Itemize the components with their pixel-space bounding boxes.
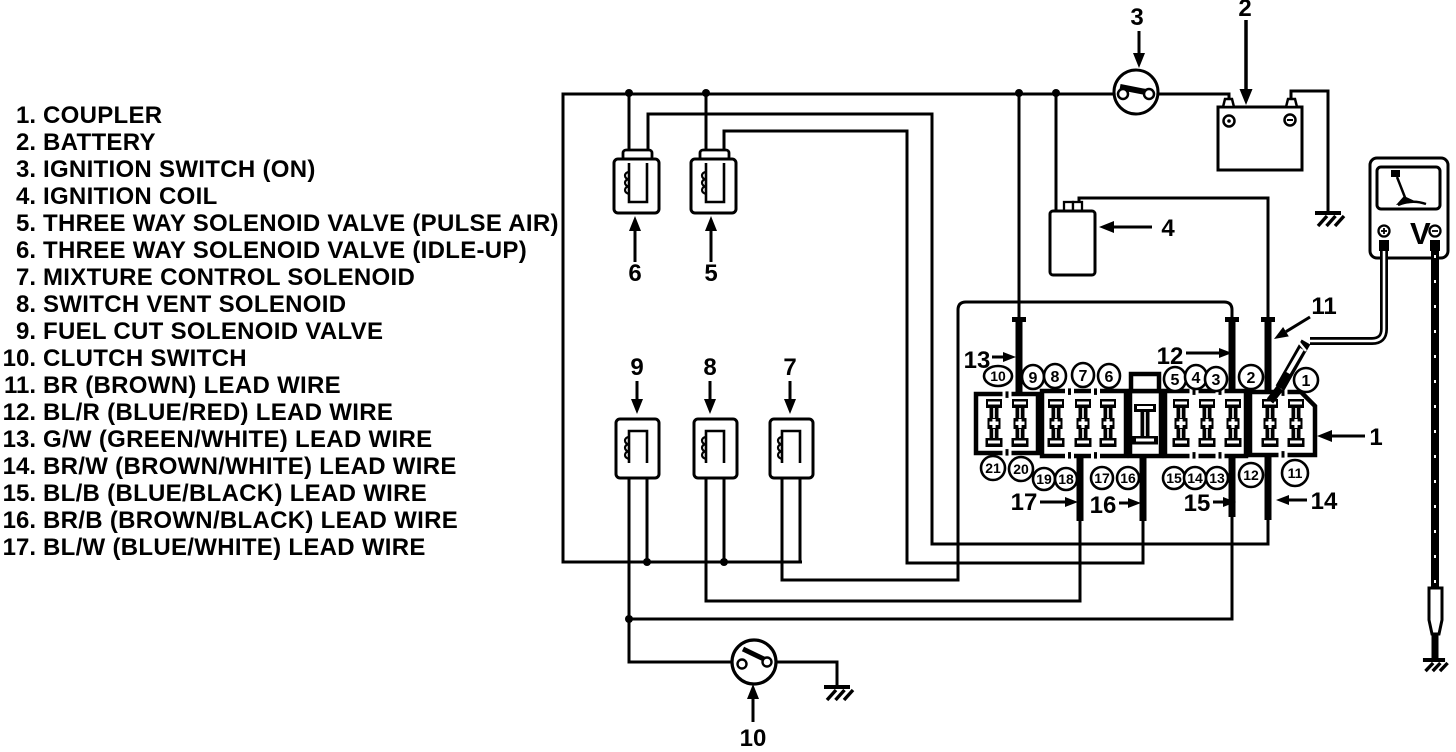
wire main bus rectangle (563, 94, 1114, 562)
svg-text:11: 11 (1311, 293, 1336, 320)
node junction comp9-coupler15 (625, 615, 633, 623)
node junction comp5 feed (702, 89, 710, 97)
svg-text:4.: 4. (16, 183, 36, 210)
mixture control solenoid 7 (770, 419, 813, 478)
svg-text:THREE WAY SOLENOID VALVE (PULS: THREE WAY SOLENOID VALVE (PULSE AIR) (43, 210, 559, 237)
coupler pins (986, 399, 1002, 408)
svg-text:1: 1 (1369, 424, 1382, 451)
svg-text:12: 12 (1243, 467, 1259, 483)
ground clutch switch (824, 685, 850, 689)
svg-text:8: 8 (1051, 369, 1060, 386)
svg-text:9.: 9. (16, 318, 36, 345)
svg-text:21: 21 (985, 460, 1001, 476)
label 3 arrow (1138, 31, 1141, 53)
three way solenoid valve 6 (623, 150, 652, 160)
svg-text:15: 15 (1184, 490, 1211, 517)
label 12 arrow (1186, 352, 1219, 355)
svg-text:10: 10 (990, 368, 1006, 384)
wire coupler 15 to comp9 (629, 517, 1232, 619)
svg-text:19: 19 (1036, 471, 1052, 487)
coupler pin circle 15 (1163, 467, 1185, 489)
coupler center pin (1134, 404, 1156, 412)
coupler pin circle 2 (1239, 365, 1263, 389)
label 16 arrow (1119, 502, 1128, 505)
wire clutch switch to ground (775, 662, 837, 686)
svg-text:1.: 1. (16, 102, 36, 129)
coupler pin circle 13 (1206, 467, 1228, 489)
label 10 arrow (752, 699, 755, 722)
wire comp7 to coupler 12 loop (782, 302, 1232, 580)
svg-text:15.: 15. (3, 480, 36, 507)
svg-text:4: 4 (1161, 215, 1175, 242)
label 4 arrow (1114, 226, 1152, 229)
svg-text:IGNITION SWITCH (ON): IGNITION SWITCH (ON) (43, 156, 316, 183)
wire switch to battery (1158, 94, 1229, 102)
svg-text:3.: 3. (16, 156, 36, 183)
svg-text:5: 5 (1171, 372, 1180, 389)
coupler pin circle 17 (1091, 467, 1113, 489)
svg-text:3: 3 (1130, 4, 1143, 31)
svg-text:14: 14 (1311, 488, 1338, 515)
voltmeter lead wire left (1310, 251, 1384, 341)
wire comp9 right to bus (646, 460, 649, 562)
coupler housing pin divider notches (1003, 391, 1012, 396)
svg-text:14: 14 (1187, 470, 1203, 486)
three way solenoid valve 5 (700, 150, 729, 160)
svg-text:BL/W (BLUE/WHITE) LEAD WIRE: BL/W (BLUE/WHITE) LEAD WIRE (43, 534, 426, 561)
svg-text:12: 12 (1157, 343, 1184, 370)
ground voltmeter probe (1423, 658, 1445, 662)
svg-text:20: 20 (1013, 461, 1029, 477)
svg-text:2: 2 (1247, 370, 1256, 387)
lead wire 13 thick (G/W) (1016, 321, 1023, 401)
svg-text:SWITCH VENT SOLENOID: SWITCH VENT SOLENOID (43, 291, 346, 318)
svg-text:7: 7 (783, 354, 796, 381)
fuel cut solenoid valve 9 (616, 419, 659, 478)
svg-text:16: 16 (1090, 492, 1117, 519)
voltmeter V (1370, 158, 1448, 258)
lead wire 11-2 thick (1265, 321, 1272, 403)
label 6 arrow (634, 231, 637, 262)
svg-text:BR (BROWN) LEAD WIRE: BR (BROWN) LEAD WIRE (43, 372, 341, 399)
svg-text:THREE WAY SOLENOID VALVE (IDLE: THREE WAY SOLENOID VALVE (IDLE-UP) (43, 237, 527, 264)
svg-text:4: 4 (1192, 370, 1201, 387)
node comp8 bus (720, 558, 728, 566)
svg-text:17: 17 (1094, 470, 1110, 486)
wire comp6 to coupler 14 (648, 114, 1268, 544)
label 7 arrow (789, 381, 792, 399)
label 17 arrow (1040, 501, 1065, 504)
voltmeter probe tip (1432, 634, 1439, 658)
svg-text:6: 6 (628, 260, 641, 287)
node junction GW lead feed (1015, 89, 1023, 97)
wire 13 G/W vertical (1018, 94, 1021, 318)
svg-text:10.: 10. (3, 345, 36, 372)
node comp9 bus (643, 558, 651, 566)
lead wire 15 thick (BL/B) (1229, 450, 1236, 517)
svg-text:IGNITION COIL: IGNITION COIL (43, 183, 218, 210)
coupler pin circle 16 (1117, 467, 1139, 489)
svg-text:16.: 16. (3, 507, 36, 534)
coupler pin circle 1 (1294, 368, 1318, 392)
svg-text:13.: 13. (3, 426, 36, 453)
svg-text:11: 11 (1288, 465, 1303, 481)
label 13 arrow (992, 356, 1003, 359)
coupler pin circle 3 (1205, 367, 1227, 391)
svg-text:7: 7 (1079, 368, 1088, 385)
voltmeter probe (1429, 588, 1442, 634)
wire coil to coupler 11-2 (1079, 198, 1268, 318)
label 15 arrow (1213, 501, 1223, 504)
svg-text:5.: 5. (16, 210, 36, 237)
svg-text:BR/W (BROWN/WHITE) LEAD WIRE: BR/W (BROWN/WHITE) LEAD WIRE (43, 453, 457, 480)
tcap lead 13 (1012, 317, 1026, 322)
wire comp6 left feed (628, 94, 631, 151)
svg-text:13: 13 (964, 347, 991, 374)
voltmeter lead wire right (1431, 251, 1439, 588)
coupler pin circle 9 (1022, 365, 1044, 389)
coupler pin circle 8 (1044, 364, 1066, 388)
wire comp8 right to bus (723, 460, 726, 562)
coupler pin circle 7 (1072, 363, 1094, 387)
wire battery to ground (1291, 91, 1328, 212)
svg-text:2: 2 (1238, 0, 1251, 22)
label 11 arrow (1286, 317, 1310, 332)
svg-text:8: 8 (703, 354, 716, 381)
label 14 arrow (1289, 499, 1307, 502)
label 5 arrow (710, 231, 713, 262)
svg-text:17.: 17. (3, 534, 36, 561)
svg-text:COUPLER: COUPLER (43, 102, 162, 129)
wire comp9 left to clutch switch (629, 460, 733, 662)
coupler pin circle 21 (981, 456, 1005, 480)
lead wire 14 thick (BR/W) (1265, 450, 1272, 520)
svg-text:V: V (1410, 216, 1431, 251)
lead wire 11 boot notch (1297, 340, 1306, 351)
svg-text:13: 13 (1209, 470, 1225, 486)
svg-text:G/W (GREEN/WHITE) LEAD WIRE: G/W (GREEN/WHITE) LEAD WIRE (43, 426, 432, 453)
node junction comp6 feed (625, 89, 633, 97)
wire comp8 to coupler 17 (706, 460, 1080, 601)
wire comp5 to coupler 16 (724, 131, 1143, 563)
svg-text:BATTERY: BATTERY (43, 129, 156, 156)
coupler pin circle 10 (984, 366, 1012, 386)
svg-text:1: 1 (1302, 373, 1311, 390)
svg-text:12.: 12. (3, 399, 36, 426)
coupler pin circle 20 (1009, 457, 1033, 481)
svg-text:CLUTCH SWITCH: CLUTCH SWITCH (43, 345, 247, 372)
lead wire 11 boot (1280, 342, 1306, 388)
coupler pin circle 19 (1033, 468, 1055, 490)
svg-text:2.: 2. (16, 129, 36, 156)
wire comp7 right to bus (799, 460, 802, 563)
svg-text:14.: 14. (3, 453, 36, 480)
svg-text:15: 15 (1166, 470, 1182, 486)
svg-text:18: 18 (1058, 471, 1074, 487)
svg-text:17: 17 (1011, 489, 1038, 516)
svg-text:6.: 6. (16, 237, 36, 264)
label 2 arrow (1244, 20, 1248, 89)
node junction coil feed (1052, 89, 1060, 97)
label 1 arrow (1332, 435, 1365, 438)
svg-text:5: 5 (704, 260, 717, 287)
coupler pin circle 18 (1055, 468, 1077, 490)
svg-text:BR/B (BROWN/BLACK) LEAD WIRE: BR/B (BROWN/BLACK) LEAD WIRE (43, 507, 458, 534)
coupler pin circle 4 (1185, 365, 1207, 389)
clutch switch (10) (732, 640, 776, 684)
svg-text:3: 3 (1212, 372, 1221, 389)
svg-text:10: 10 (740, 725, 767, 752)
wire ignition coil feed (1055, 94, 1058, 212)
coupler pin circle 14 (1184, 467, 1206, 489)
voltmeter lead wire left core (1310, 251, 1384, 341)
tcap lead 12 (1225, 317, 1239, 322)
lead wire 12 thick (BL/R) (1229, 321, 1236, 401)
battery (2) (1218, 107, 1302, 170)
label 8 arrow (709, 381, 712, 399)
tcap coil lead (1261, 317, 1275, 322)
svg-text:16: 16 (1120, 470, 1136, 486)
switch vent solenoid 8 (694, 419, 737, 478)
lead wire 17 thick (BL/W) (1077, 450, 1084, 521)
svg-text:8.: 8. (16, 291, 36, 318)
svg-text:FUEL CUT SOLENOID VALVE: FUEL CUT SOLENOID VALVE (43, 318, 383, 345)
coupler pin circle 6 (1098, 364, 1120, 388)
ground battery (1315, 211, 1341, 215)
coupler pin circle 12 (1239, 463, 1263, 487)
svg-text:9: 9 (1029, 370, 1038, 387)
label 9 arrow (636, 381, 639, 399)
svg-text:7.: 7. (16, 264, 36, 291)
svg-text:BL/B (BLUE/BLACK) LEAD WIRE: BL/B (BLUE/BLACK) LEAD WIRE (43, 480, 427, 507)
svg-text:BL/R (BLUE/RED) LEAD WIRE: BL/R (BLUE/RED) LEAD WIRE (43, 399, 393, 426)
coupler pin circle 5 (1164, 367, 1186, 391)
svg-text:6: 6 (1105, 369, 1114, 386)
svg-text:11.: 11. (4, 372, 36, 399)
svg-text:9: 9 (630, 354, 643, 381)
svg-text:MIXTURE CONTROL SOLENOID: MIXTURE CONTROL SOLENOID (43, 264, 415, 291)
coupler pin circle 11 (1282, 460, 1308, 486)
coupler 1 housing (976, 394, 1038, 453)
lead wire 16 thick (BR/B) (1140, 450, 1147, 521)
wire comp5 left feed (705, 94, 708, 151)
ignition coil (4) (1064, 202, 1073, 212)
ignition switch (3) (1114, 70, 1158, 114)
